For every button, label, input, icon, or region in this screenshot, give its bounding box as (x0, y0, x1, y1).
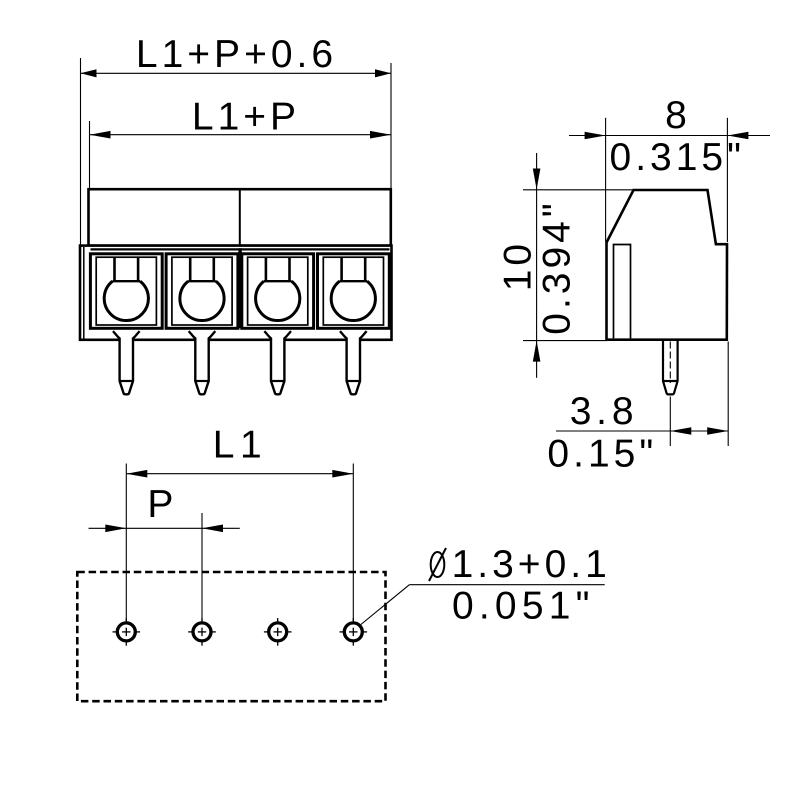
svg-text:0.051": 0.051" (452, 585, 595, 628)
extension line left outer (80, 58, 82, 245)
side view slot (614, 245, 631, 339)
pole 4 inner square (323, 257, 383, 325)
pole 3 screw circle (256, 281, 300, 320)
dimension line L1 (126, 473, 353, 475)
hole callout leader (361, 585, 410, 625)
extension line right shared (390, 63, 392, 189)
svg-text:0.15": 0.15" (547, 433, 657, 476)
extension line hole 1 (125, 464, 127, 622)
divider between pole 2 and 3 (238, 248, 241, 328)
pole 3 inner square (248, 257, 308, 325)
terminal block upper housing (89, 189, 391, 245)
dimension 3.8: right extension line (727, 342, 729, 447)
dimension 3.8: extension line below pin (669, 397, 671, 447)
pole 1 screw circle (104, 281, 148, 320)
hole 1 (113, 618, 141, 646)
arrow right of L1 (332, 470, 353, 478)
svg-text:P: P (147, 483, 177, 526)
arrow left of L1+P (90, 131, 111, 139)
upper housing center divider (239, 189, 241, 245)
arrow left of L1 (126, 470, 147, 478)
extension line hole 2 (201, 513, 203, 621)
arrow right of 3.8 (inside, pointing right) (707, 427, 728, 435)
pole 3 clamp square (242, 254, 314, 328)
arrow right of 8 (outside, pointing left) (727, 132, 748, 140)
pin centerline (dashed) (669, 342, 671, 384)
svg-text:L1: L1 (213, 424, 267, 467)
pole 1 clamp square (90, 254, 162, 328)
arrow right of L1+P (370, 131, 391, 139)
pole 1 pin (113, 331, 140, 394)
lower housing left inner line (83, 247, 85, 339)
diameter symbol (429, 548, 446, 581)
pole 1 wire channel (113, 257, 116, 281)
arrow right of P (outside, pointing left) (202, 525, 223, 533)
pole 3 wire channel (265, 257, 268, 281)
side view pin (663, 340, 678, 395)
extension line 10 top (523, 189, 634, 191)
footprint dashed outline (77, 572, 385, 701)
svg-text:0.394": 0.394" (536, 199, 579, 334)
pole 4 pin (340, 331, 367, 394)
arrow left of L1+P+0.6 (81, 69, 97, 77)
pole 2 inner square (172, 257, 232, 325)
svg-text:L1+P: L1+P (192, 96, 300, 139)
hole 2 (188, 618, 216, 646)
svg-text:L1+P+0.6: L1+P+0.6 (136, 33, 337, 76)
extension line left inner (89, 121, 91, 189)
vertical dimension line 10/0.394 (536, 153, 538, 378)
pole 2 wire channel (189, 257, 192, 281)
side view body outline (607, 190, 728, 340)
pole 2 pin (189, 331, 216, 394)
pole 3 pin (264, 331, 291, 394)
extension line 10 bottom (523, 340, 607, 342)
svg-text:10: 10 (497, 240, 540, 291)
arrow bottom (pointing up) (533, 341, 541, 362)
lower housing seam line (91, 248, 390, 250)
pole 4 clamp square (318, 254, 390, 328)
svg-text:3.8: 3.8 (570, 390, 639, 433)
dimension line L1+P (90, 134, 392, 136)
hole callout underline (409, 584, 604, 586)
arrow top (pointing down) (533, 169, 541, 190)
arrow left of 3.8 (inside, pointing left) (670, 427, 691, 435)
arrow left of 8 (outside, pointing right) (585, 132, 606, 140)
pole 1 inner square (96, 257, 156, 325)
terminal block lower housing (80, 246, 392, 340)
pole 4 screw circle (331, 281, 375, 320)
svg-text:1.3+0.1: 1.3+0.1 (452, 543, 611, 586)
dimension line L1+P+0.6 (81, 72, 392, 74)
svg-text:0.315": 0.315" (610, 136, 745, 179)
dimension line 8 (569, 135, 770, 137)
arrow right of L1+P+0.6 (375, 69, 391, 77)
arrow left of P (outside, pointing right) (105, 525, 126, 533)
dimension line P (89, 527, 240, 529)
dimension line 3.8 (556, 430, 728, 432)
pole 2 screw circle (180, 281, 224, 320)
pole 4 wire channel (340, 257, 343, 281)
extension line hole 4 (352, 464, 354, 622)
pole 2 clamp square (166, 254, 238, 328)
extension line 8 right (726, 118, 728, 242)
hole 3 (264, 618, 292, 646)
svg-text:8: 8 (665, 94, 691, 137)
extension line 8 left (605, 118, 607, 242)
hole 4 (340, 618, 368, 646)
